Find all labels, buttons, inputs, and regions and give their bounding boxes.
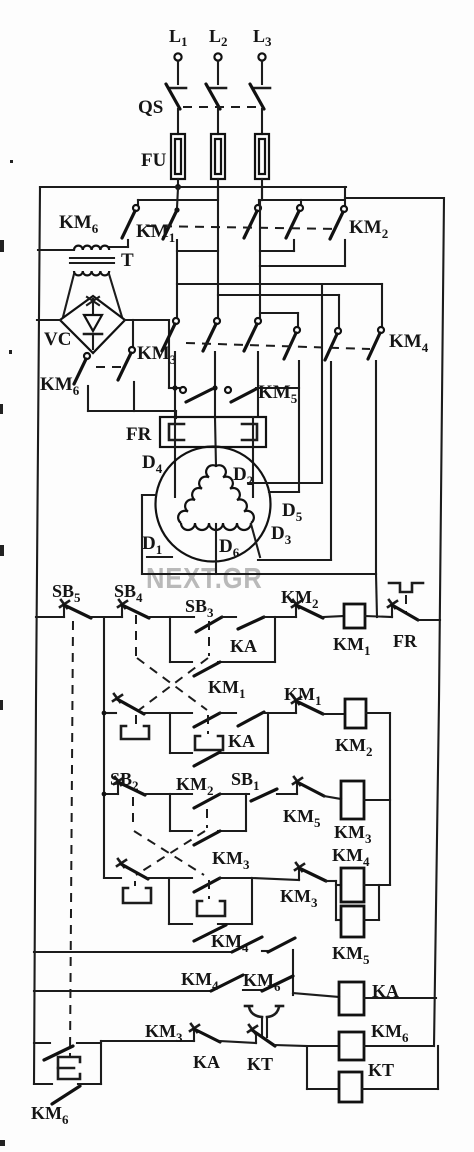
contactor KM2 pole 2 (286, 205, 303, 238)
fuse FU 3 (255, 134, 269, 200)
svg-text:SB2: SB2 (110, 769, 139, 793)
transformer T primary (74, 246, 109, 250)
wire KM4 pole3 feed (381, 284, 383, 327)
svg-text:KM3: KM3 (212, 848, 250, 872)
contactor KM6 aux pole 2 (118, 320, 135, 411)
svg-text:KM2: KM2 (335, 735, 373, 759)
wire bus step to right rail (345, 197, 442, 199)
button contact (NO latched) rung4 (194, 878, 220, 892)
KM3-KM4 linkage dashed (186, 343, 370, 349)
relay contact KM5 pole 2 (225, 387, 256, 402)
crossed linkage X1 (136, 615, 209, 710)
svg-text:L2: L2 (209, 26, 228, 49)
svg-text:KM3: KM3 (137, 343, 177, 367)
wire L1 drop (177, 188, 178, 208)
wire rung5 drop (292, 950, 294, 995)
contact KM6 (NO) bottom (52, 1086, 80, 1104)
junction dot KM5 left (172, 385, 177, 390)
wire L3 lower vertical (259, 200, 261, 318)
button contact (NC latched) rung2 (113, 694, 144, 714)
node coil pair left (336, 881, 341, 920)
latch cup rung4 left (123, 888, 151, 903)
wire interconnect y284 (177, 283, 382, 285)
latch dashed rung2 left (135, 715, 137, 725)
wire interconnect y313 (260, 312, 298, 314)
svg-text:FR: FR (126, 424, 152, 445)
contact KM5 interlock (NC) rung3 (293, 777, 324, 796)
wire KM4 pole3 drop (375, 361, 377, 574)
fuse FU 2 (211, 134, 225, 200)
thermal relay FR heater box (160, 417, 266, 447)
contact KM3 (NC) rung7 (190, 1024, 220, 1042)
svg-text:NEXT.GR: NEXT.GR (146, 561, 263, 594)
svg-text:D2: D2 (233, 464, 253, 488)
button contact (NO latched) rung2 (194, 713, 220, 727)
wire T primary to left rail (38, 249, 74, 251)
svg-text:D1: D1 (142, 533, 162, 557)
wire T secondary right lead (109, 274, 122, 317)
coil KM6 (339, 1032, 364, 1060)
thermal relay FR trip element (389, 583, 423, 592)
coil KT (339, 1072, 362, 1102)
latch dashed rung2 mid (207, 715, 209, 734)
junction dot KM5 mid (212, 385, 217, 390)
svg-text:KM4: KM4 (181, 969, 219, 993)
contact KM1 self-hold (NO) (194, 662, 220, 676)
wire to KM6 coil (307, 1045, 339, 1047)
svg-text:KM6: KM6 (371, 1021, 409, 1045)
svg-text:KA: KA (228, 731, 255, 751)
svg-text:KT: KT (368, 1060, 394, 1080)
wire KT coil out (362, 1046, 438, 1089)
wire D4 loop left (142, 495, 156, 574)
motor delta winding (178, 465, 254, 530)
wire D1 lead (147, 556, 172, 558)
contact KM2 (NO) rung3 (194, 794, 220, 808)
wire rung4 left (104, 877, 121, 879)
branch vertical to lower rungs (103, 617, 105, 878)
contactor KM4 pole 2 (325, 328, 341, 360)
KM1-KM2 linkage dashed (147, 226, 337, 229)
wire bus corner to KM2 pole3 (344, 187, 346, 205)
latch cup rung4 mid (197, 901, 225, 916)
wire bottom a (78, 1083, 101, 1085)
wire rung2 left (104, 712, 116, 714)
wire rung2 e (366, 712, 390, 714)
svg-text:VC: VC (44, 329, 71, 350)
contactor KM1 pole (163, 207, 180, 239)
crossed linkage X2 (133, 797, 207, 875)
rectifier VC diamond (60, 296, 125, 353)
wire rung4 a (148, 877, 192, 879)
svg-text:KA: KA (193, 1052, 220, 1072)
parallel box rung4 (169, 878, 252, 924)
contact KM3 interlock (NC) rung4 (295, 863, 326, 881)
svg-text:KM5: KM5 (283, 806, 321, 830)
svg-text:KA: KA (230, 636, 257, 656)
wire KM4 pole1 feed (297, 313, 299, 327)
wire to KT coil (307, 1088, 339, 1090)
wire rung1 c (222, 616, 236, 618)
wire rung2 d (323, 713, 345, 715)
wire FR to motor lead 2 (215, 418, 216, 466)
wire rung1 e (323, 616, 344, 617)
contactor KM6 aux pole 1 (VC output) (74, 353, 90, 411)
wire rung3 e (364, 799, 390, 801)
latch cup rung7 (58, 1057, 80, 1079)
wire rung4 b (220, 877, 252, 879)
contact KM4 (NO) rung5 (232, 937, 262, 952)
wire VC left to rail (37, 319, 60, 321)
pushbutton SB5 (NC) (60, 600, 91, 618)
svg-text:KM6: KM6 (59, 212, 99, 236)
contact KM6 (NO) rung5 (268, 938, 295, 952)
wire KM3 pole2 drop (214, 352, 216, 418)
wire D2 riser (321, 284, 323, 483)
contactor KM4 pole 1 (284, 327, 300, 359)
pushbutton SB4 (NC) (118, 600, 149, 618)
pushbutton SB2 (NC) (114, 777, 145, 795)
wire rung6 (34, 990, 262, 991)
wire KM4 pole2 feed (338, 295, 340, 328)
svg-text:FU: FU (141, 150, 167, 171)
wire L3 vertical (261, 186, 263, 200)
wire rung4 c (252, 878, 299, 880)
latch dashed rung4 mid (208, 880, 210, 899)
svg-text:SB1: SB1 (231, 769, 260, 793)
wire FR to motor lead 1 (174, 418, 176, 497)
wire rung5 (34, 951, 268, 952)
wire D6 lead (215, 524, 217, 574)
svg-text:L3: L3 (253, 26, 272, 49)
wire drop to control rung1 (376, 574, 377, 617)
node L3 terminal (258, 53, 265, 84)
wire L2 vertical (217, 186, 219, 318)
contact KM1 interlock (NC) rung2 (292, 696, 323, 714)
switch QS pole 1 (166, 84, 186, 134)
wire T secondary left lead (63, 274, 74, 317)
contact self-hold rung2 (NO) (194, 752, 220, 766)
pushbutton SB1 (NO) (251, 789, 277, 801)
wire rung7 a (220, 1041, 256, 1043)
contact KM4 self-hold (NO) (194, 925, 226, 941)
wire rung1 a (91, 616, 122, 618)
wire KM6 coil out to rail (364, 1045, 434, 1047)
wire KM2 pole3 drop (260, 240, 345, 266)
switch QS pole 2 (206, 84, 226, 134)
junction dot rung2 branch (102, 711, 107, 716)
scan artifact marks (0, 160, 13, 1146)
wire KA coil out (364, 997, 436, 999)
wire rung1 b (149, 616, 194, 618)
rectifier VC diode symbol (84, 297, 102, 349)
wire rung2 a (144, 712, 192, 714)
svg-text:KM1: KM1 (333, 634, 371, 658)
relay contact KM5 pole 1 (180, 387, 212, 402)
wire rung3 a (145, 793, 192, 795)
button contact (NC latched) rung4 (117, 859, 148, 879)
fuse FU 1 (171, 134, 185, 188)
contactor KM4 pole 3 (368, 327, 384, 359)
contactor KM3 pole 2 (203, 318, 220, 351)
wire KM3 pole3 drop (257, 352, 259, 417)
aux return vertical (389, 713, 391, 885)
coil KA (339, 982, 364, 1015)
transformer T secondary (74, 271, 109, 275)
QS linkage dashed (183, 106, 258, 108)
wire rung1 d (264, 616, 296, 618)
node L1 terminal (174, 53, 181, 84)
contactor KM3 pole 1 (162, 318, 179, 351)
svg-text:KM5: KM5 (258, 382, 298, 406)
svg-text:KT: KT (247, 1054, 273, 1074)
wire KM6 contact to transformer (109, 240, 128, 247)
thermal contact FR (NC) (388, 600, 418, 620)
svg-text:D4: D4 (142, 452, 163, 476)
wire rung1 left (36, 616, 64, 618)
svg-text:KM3: KM3 (334, 822, 372, 846)
parallel box rung3 (170, 794, 246, 831)
node KT output branch (306, 1048, 308, 1089)
motor stator circle (156, 447, 271, 562)
switch QS pole 3 (250, 84, 270, 134)
parallel box rung2 (170, 713, 268, 753)
wire rung7 b (275, 1045, 307, 1046)
SB5 long linkage dashed (70, 621, 73, 1056)
contactor KM2 pole 1 (244, 205, 261, 238)
contactor KM6 main contact (T feed) (122, 205, 139, 238)
svg-text:KM3: KM3 (280, 886, 318, 910)
svg-text:D6: D6 (219, 536, 240, 560)
wire FR to motor lead 3 (252, 417, 254, 497)
wire KM1 row feed A (138, 200, 217, 205)
svg-text:KM2: KM2 (349, 217, 388, 241)
FR trip dashed link (405, 595, 407, 612)
wire top bus (40, 186, 346, 188)
contact KM3 self-hold (NO) (194, 831, 220, 845)
junction dot rung3 branch (102, 792, 107, 797)
latch cup rung2 left (121, 726, 149, 739)
svg-text:D5: D5 (282, 500, 303, 524)
parallel box rung1 (170, 617, 275, 662)
wire rung3 c (277, 793, 297, 795)
coil KM4 (341, 868, 364, 902)
svg-text:KM6: KM6 (31, 1103, 69, 1127)
svg-text:KM4: KM4 (332, 845, 370, 869)
svg-text:KM6: KM6 (40, 374, 80, 398)
contact SB5-latched (NO) rung7 (44, 1046, 73, 1060)
coil KM1 (344, 604, 365, 628)
wire VC right output (125, 320, 180, 388)
wire D2 lead (248, 482, 322, 484)
wire rung7 left (34, 1041, 194, 1084)
coil KM2 (345, 699, 366, 728)
left rail (34, 187, 40, 1084)
contact KM4 (NO) rung6 (211, 975, 243, 991)
wire KM5 output (256, 387, 299, 389)
svg-text:KM1: KM1 (208, 677, 246, 701)
transformer T core (70, 258, 114, 263)
svg-text:T: T (121, 250, 134, 271)
wire coil KM4 out (364, 884, 390, 886)
wire rail bottom corner (34, 1083, 52, 1085)
wire rung1 to right rail (418, 619, 440, 621)
KM6 aux linkage dashed (96, 366, 121, 368)
wire KM3 pole1 drop (174, 352, 176, 418)
wire rung2 b (220, 712, 236, 714)
wire L1 branch vertical (176, 240, 178, 318)
wire rung3 b (220, 793, 249, 795)
wire rung6 to KA coil (293, 993, 339, 997)
svg-text:D3: D3 (271, 523, 292, 547)
wire motor bottom bus (142, 573, 376, 575)
contact KT (NC delayed) (248, 1025, 275, 1046)
node L2 terminal (214, 53, 221, 84)
wire KM4 pole1 drop to D5 (298, 361, 300, 492)
relay contact KA (NO) rung2 (238, 712, 264, 726)
contactor KM3 pole 3 (244, 318, 261, 351)
wire KM2 pole2 drop (260, 240, 294, 251)
wire rung3 left (104, 793, 118, 795)
coil KM5 (341, 906, 364, 937)
wire D3 lead (251, 524, 331, 560)
contact KM2 interlock (NC) rung1 (292, 600, 323, 618)
wire KM6 output to FR (88, 411, 176, 418)
latch dashed rung4 left (134, 881, 136, 886)
wire rung2 c (264, 712, 296, 714)
wire rung4 d (326, 880, 336, 882)
wire KM4 pole2 drop to D3 (330, 362, 332, 560)
wire rung1 f (365, 616, 392, 617)
contact KM6 (NO) rung6 (262, 976, 293, 991)
svg-text:FR: FR (393, 631, 418, 651)
svg-text:KM4: KM4 (389, 331, 429, 355)
wire interconnect y251 (177, 250, 218, 252)
relay contact KA (NO) rung1 (238, 617, 264, 629)
svg-text:QS: QS (138, 97, 163, 118)
wire rung3 d (324, 796, 341, 799)
junction dot L1-bus (175, 184, 181, 190)
wire KM2 row feed B (259, 200, 343, 205)
wire coil KM5 out (364, 885, 379, 920)
wire D5 lead (269, 491, 299, 493)
contactor KM2 pole 3 (330, 206, 347, 239)
time relay KT delay head (245, 1006, 283, 1037)
svg-text:L1: L1 (169, 26, 188, 49)
wire interconnect y295 (218, 294, 339, 296)
latch cup rung2 mid (195, 736, 223, 750)
coil KM3 (341, 781, 364, 819)
svg-text:KM5: KM5 (332, 943, 370, 967)
right rail (434, 198, 444, 1046)
pushbutton SB3 (NO) (196, 617, 222, 632)
